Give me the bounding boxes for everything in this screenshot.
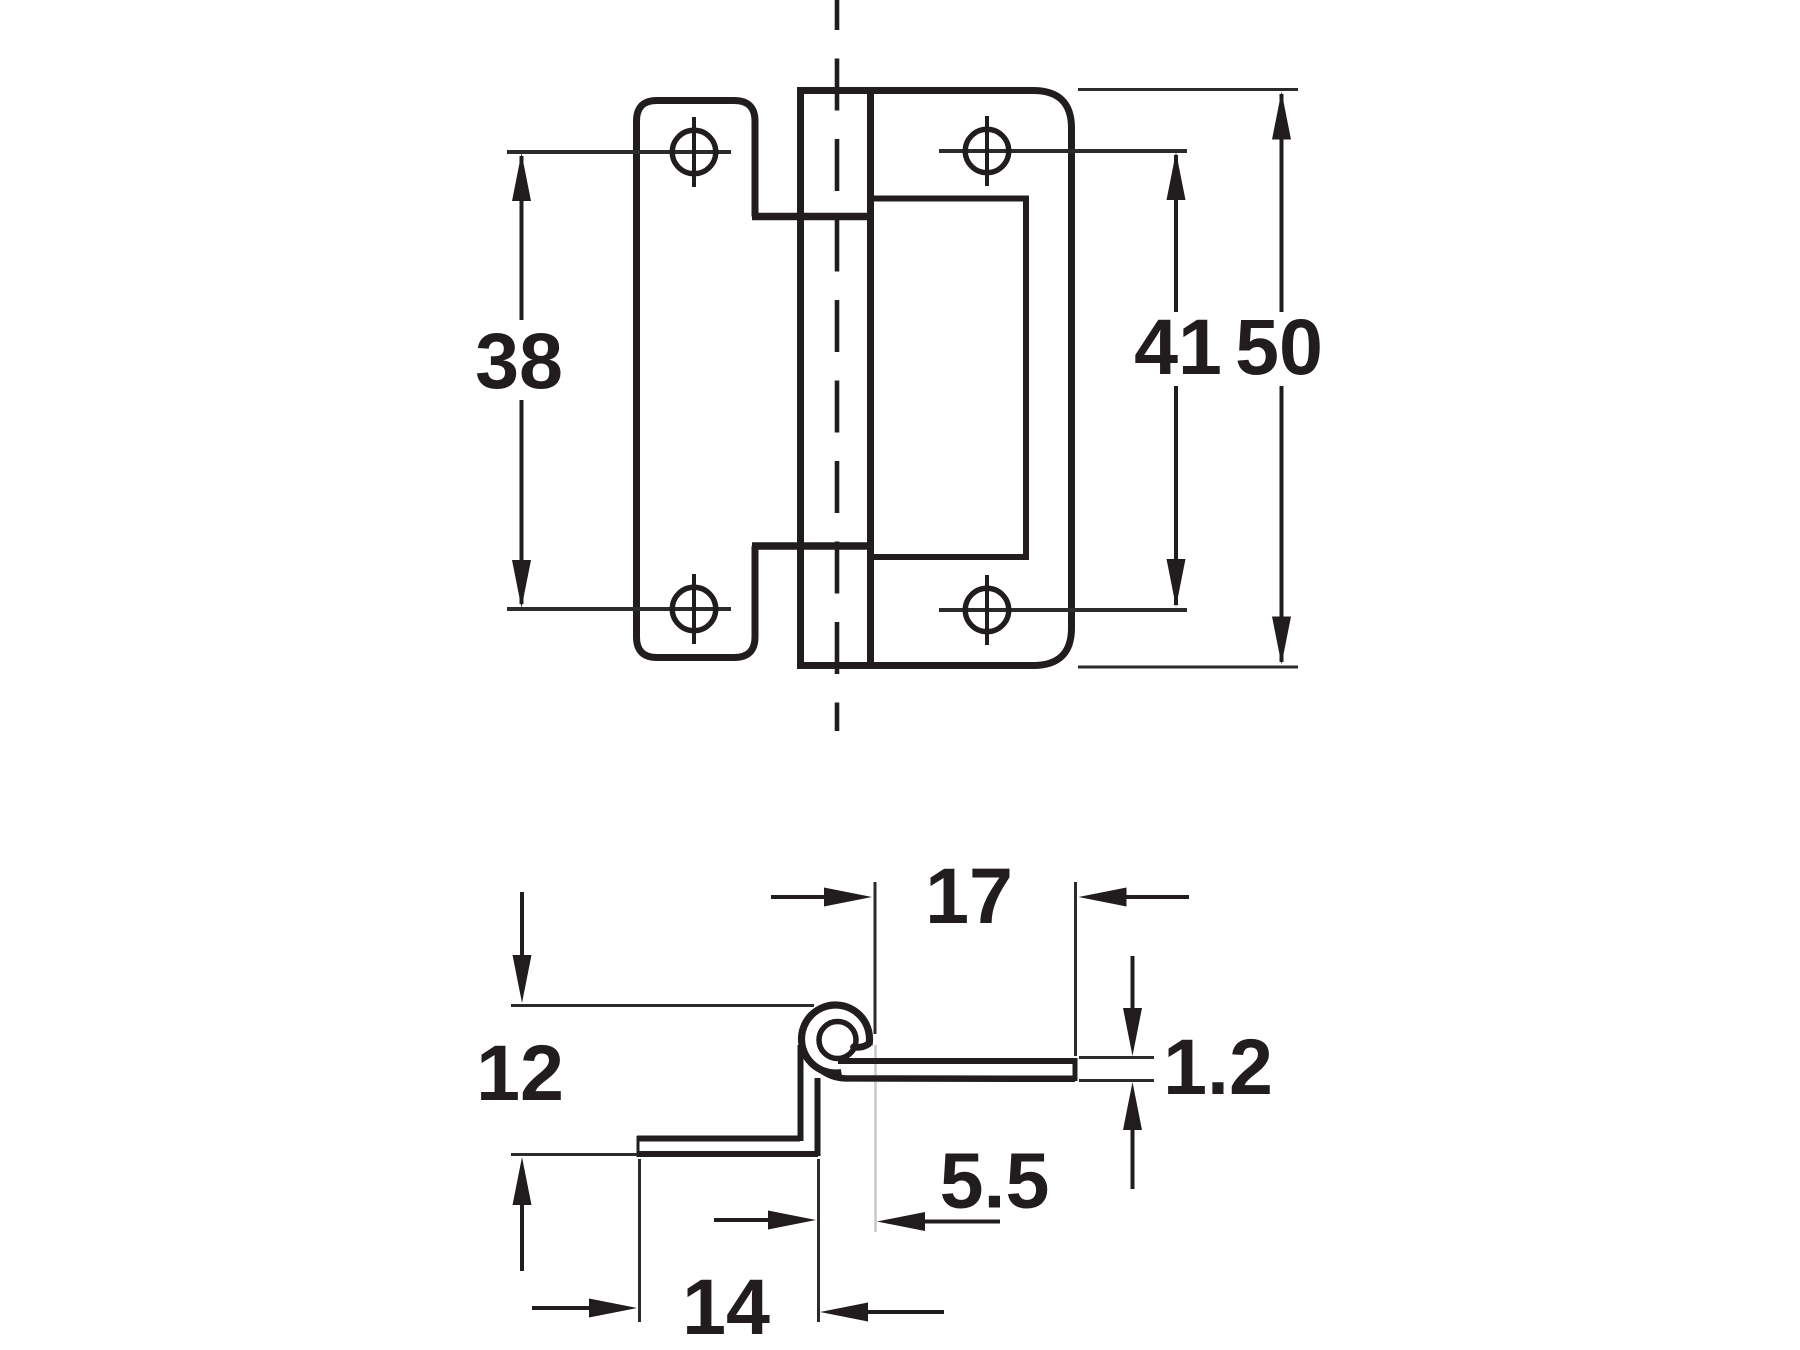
right leaf profile: end cap (1073, 1058, 1078, 1081)
svg-text:50: 50 (1235, 302, 1323, 391)
knuckle curl end hook (854, 1044, 869, 1047)
knuckle right edge line (867, 91, 874, 666)
svg-text:1.2: 1.2 (1163, 1022, 1273, 1111)
crank riser right surface (815, 1078, 821, 1156)
svg-text:12: 12 (476, 1028, 564, 1117)
right leaf outline (front view) (801, 91, 1072, 666)
dimension 14 arrows (532, 1299, 944, 1322)
dimension 1.2 extension line top (1079, 1056, 1154, 1059)
dimension 12 bottom extension line (511, 1153, 637, 1156)
dimension 1.2 extension line bottom (1079, 1079, 1154, 1082)
left leaf outline (cranked leaf, front view) (637, 101, 756, 658)
dimension 17 arrows (771, 888, 1189, 907)
hinge pin hole (819, 1022, 856, 1059)
dimension 12 top extension line (511, 1004, 814, 1007)
centerline (hinge pin axis, dashed) (835, 0, 840, 731)
dimension 50 line (1272, 92, 1291, 665)
dimension 12 arrows (513, 892, 532, 1271)
right leaf profile: top surface line (838, 1058, 1075, 1064)
crank riser left surface (798, 1045, 804, 1141)
knuckle outer curl (802, 1005, 870, 1073)
left leaf profile: bottom surface line (637, 1151, 818, 1157)
svg-text:14: 14 (682, 1262, 770, 1350)
left leaf tab bottom edge (752, 542, 874, 550)
right leaf profile: bottom surface line (821, 1070, 1075, 1079)
screw hole top-right (939, 116, 1187, 186)
right leaf cutout slot (871, 199, 1027, 558)
svg-text:17: 17 (925, 851, 1013, 940)
svg-text:5.5: 5.5 (940, 1136, 1050, 1225)
dimension 5.5 right extension line (faint) (874, 1045, 877, 1232)
dimension 17 left extension line (874, 882, 877, 1034)
left leaf tab top edge (752, 213, 874, 221)
dimension 50 extension line top (1078, 88, 1298, 91)
screw hole top-left (507, 117, 731, 187)
screw hole bottom-left (507, 574, 731, 644)
left leaf profile: left end cap (637, 1136, 640, 1157)
dimension 5.5 arrows (714, 1211, 1000, 1232)
dimension 38 line (512, 153, 531, 608)
dimension 41 line (1167, 152, 1186, 607)
left leaf profile: top surface line (637, 1136, 800, 1142)
svg-text:38: 38 (475, 316, 563, 405)
dimension 17 right extension line (1074, 882, 1077, 1056)
dimension 14 left extension line (638, 1159, 641, 1322)
dimension 1.2 arrows (1123, 956, 1142, 1189)
svg-text:41: 41 (1134, 302, 1222, 391)
dimension 14 right extension line (817, 1159, 820, 1322)
screw hole bottom-right (939, 575, 1187, 645)
dimension 50 extension line bottom (1078, 666, 1298, 669)
